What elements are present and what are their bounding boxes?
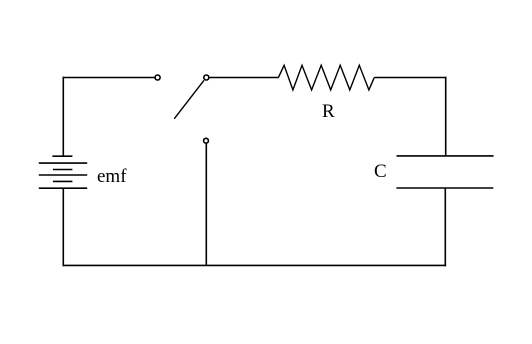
wire left vertical battery to top wire xyxy=(62,77,64,157)
resistor R zigzag xyxy=(278,65,374,90)
label emf xyxy=(97,167,127,186)
battery short plate 2 xyxy=(53,180,73,182)
switch lever (open blade) xyxy=(174,80,204,119)
capacitor C bottom plate xyxy=(396,187,493,189)
battery long plate 3 xyxy=(39,187,87,189)
wire from resistor to top-right corner xyxy=(374,77,446,79)
battery short plate 1 xyxy=(53,169,73,171)
wire top-left horizontal from battery to switch contact xyxy=(63,77,156,79)
label R xyxy=(322,102,335,121)
bottom wire xyxy=(63,264,447,266)
label C xyxy=(374,162,387,181)
battery long plate 2 xyxy=(39,174,87,176)
switch lower contact terminal (circle) xyxy=(204,138,209,143)
wire from capacitor bottom plate down xyxy=(444,188,446,266)
wire left vertical battery bottom to bottom wire xyxy=(62,188,64,266)
switch contact terminal (circle) left xyxy=(155,75,160,80)
wire from lower switch contact down to bottom wire xyxy=(205,143,207,265)
wire right vertical down to capacitor top plate xyxy=(445,77,447,156)
switch pivot terminal (circle) right xyxy=(204,75,209,80)
battery long plate 1 xyxy=(39,162,87,164)
capacitor C top plate xyxy=(397,155,494,157)
wire from switch pivot to resistor xyxy=(209,77,278,79)
battery emf top terminal tick xyxy=(52,155,72,157)
